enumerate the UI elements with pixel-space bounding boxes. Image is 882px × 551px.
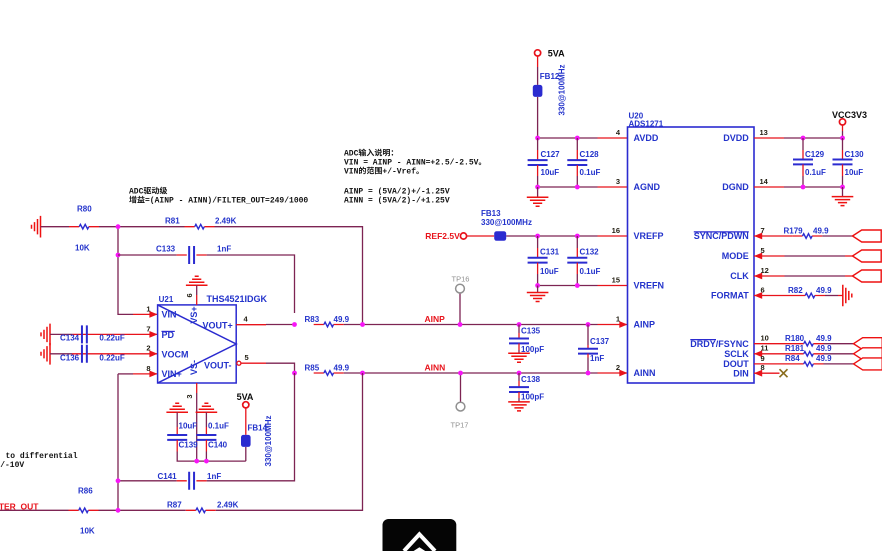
ground above C140 — [196, 403, 218, 412]
connector tag DRDY/FSYNC — [854, 338, 882, 350]
wire VREFN rail — [538, 285, 598, 287]
svg-text:VOUT-: VOUT- — [204, 360, 232, 370]
svg-text:C135: C135 — [521, 327, 541, 336]
svg-text:3: 3 — [616, 177, 620, 186]
ground below C131 — [537, 286, 539, 293]
svg-text:ADC: ADC — [129, 188, 144, 197]
svg-text:C133: C133 — [156, 245, 176, 254]
svg-text:VS-: VS- — [189, 360, 199, 375]
svg-text:R85: R85 — [305, 364, 320, 373]
svg-text:9: 9 — [761, 354, 765, 363]
svg-text:MODE: MODE — [722, 251, 749, 261]
svg-text:7: 7 — [761, 226, 765, 235]
svg-text:10uF: 10uF — [845, 168, 864, 177]
power port 5VA (top) — [535, 50, 541, 56]
capacitor C141 — [118, 373, 295, 481]
svg-text:10uF: 10uF — [179, 421, 198, 430]
svg-text:VCC3V3: VCC3V3 — [832, 110, 867, 120]
svg-text:11: 11 — [761, 344, 769, 353]
svg-text:49.9: 49.9 — [816, 354, 832, 363]
wire R80 to R81 to corner down to AINP node — [99, 227, 363, 325]
ground below C130 — [842, 187, 844, 197]
svg-text:1nF: 1nF — [207, 472, 221, 481]
svg-text:+/-Vref: +/-Vref — [382, 168, 416, 177]
pin 6 FORMAT row — [754, 292, 762, 299]
svg-text:5VA: 5VA — [237, 392, 254, 402]
svg-text:AINP: AINP — [634, 320, 656, 330]
svg-text:49.9: 49.9 — [334, 315, 350, 324]
resistor R86 — [69, 508, 99, 513]
svg-text:+/-10V: +/-10V — [0, 461, 24, 470]
svg-text:13: 13 — [760, 128, 768, 137]
svg-text:0.1uF: 0.1uF — [580, 267, 601, 276]
junction VOUT+ node — [292, 322, 297, 327]
ground below C135 — [508, 353, 530, 362]
pin 2 AINN arrow into IC — [598, 372, 628, 374]
svg-text:R80: R80 — [77, 205, 92, 214]
ground (VOCM pin 2) — [41, 343, 50, 365]
ground below C127 — [537, 187, 539, 197]
wire VOUT- pin 5 — [241, 362, 266, 364]
svg-text:R179: R179 — [784, 226, 804, 235]
pin 5 inversion bubble — [237, 361, 241, 365]
svg-text:330@100MHz: 330@100MHz — [558, 65, 567, 116]
resistor R82 — [795, 293, 825, 298]
svg-text:C141: C141 — [158, 472, 178, 481]
svg-text:C138: C138 — [521, 375, 541, 384]
wire pin 8 from feedback node — [118, 373, 133, 375]
wire AVDD rail — [538, 137, 598, 139]
junction VREFP/C132 — [575, 234, 580, 239]
svg-text:CLK: CLK — [730, 271, 749, 281]
svg-text:AINP = (5VA/2)+/-1.25V: AINP = (5VA/2)+/-1.25V — [344, 188, 450, 197]
capacitor C129 — [802, 138, 804, 150]
op-amp U21 THS4521IDGK — [158, 294, 268, 383]
capacitor C128 — [576, 138, 578, 150]
svg-text:2: 2 — [146, 344, 150, 353]
svg-text:7: 7 — [146, 324, 150, 333]
connector tag CLK — [853, 270, 882, 282]
ferrite bead FB14 — [245, 408, 247, 435]
svg-text:49.9: 49.9 — [816, 344, 832, 353]
svg-text:C128: C128 — [580, 150, 600, 159]
junction AVDD/C128 — [575, 136, 580, 141]
junction VREFN/C131 — [535, 283, 540, 288]
pin 10 DRDY/FSYNC row — [754, 343, 794, 345]
connector tag MODE — [853, 250, 882, 262]
svg-text:C131: C131 — [540, 248, 560, 257]
ferrite bead FB12 — [537, 56, 539, 67]
svg-text:DIN: DIN — [733, 368, 749, 378]
svg-text:49.9: 49.9 — [816, 334, 832, 343]
connector tag SCLK — [854, 348, 882, 360]
pin 7 SYNC/PDWN row — [754, 233, 762, 240]
svg-text:8: 8 — [761, 363, 765, 372]
svg-text:REF2.5V: REF2.5V — [425, 231, 460, 241]
junction pin3 rail — [194, 459, 199, 464]
no-connect X on DIN — [780, 369, 788, 377]
junction R87 feedback at AINN — [360, 371, 365, 376]
junction AVDD/C127 — [535, 136, 540, 141]
svg-text:R81: R81 — [165, 217, 180, 226]
svg-text:R82: R82 — [788, 286, 803, 295]
svg-text:R180: R180 — [785, 334, 805, 343]
svg-text:VIN: VIN — [344, 168, 359, 177]
svg-text:C132: C132 — [580, 248, 600, 257]
ground (input, left of R80) — [32, 216, 41, 238]
svg-text:VOUT+: VOUT+ — [203, 320, 233, 330]
junction DGND/C129 — [801, 185, 806, 190]
svg-text:ADS1271: ADS1271 — [629, 119, 664, 128]
junction DGND/C130 — [840, 185, 845, 190]
wire pin 6 — [196, 285, 198, 295]
svg-text:SYNC/PDWN: SYNC/PDWN — [694, 231, 749, 241]
svg-text:1: 1 — [146, 304, 150, 313]
svg-text:10uF: 10uF — [540, 267, 559, 276]
svg-text:FB13: FB13 — [481, 209, 501, 218]
wire AINP run — [344, 324, 598, 326]
wire pin 3 to bypass rail — [196, 383, 198, 393]
svg-text:100pF: 100pF — [521, 393, 544, 402]
svg-text:330@100MHz: 330@100MHz — [481, 218, 532, 227]
svg-text:R86: R86 — [78, 486, 93, 495]
svg-text:AINN: AINN — [425, 363, 446, 373]
svg-text:=(AINP - AINN)/FILTER_OUT=249/: =(AINP - AINN)/FILTER_OUT=249/1000 — [145, 197, 308, 206]
capacitor C137 — [586, 322, 591, 327]
power port 5VA (FB14) — [243, 402, 249, 408]
op-amp U1 pin 1 lead — [133, 313, 158, 315]
ground above C139 — [166, 403, 188, 412]
junction R80/R81 — [116, 224, 121, 229]
svg-text:4: 4 — [616, 128, 621, 137]
pin 9 DOUT row — [754, 363, 794, 365]
capacitor C130 — [842, 138, 844, 150]
pin 11 SCLK row — [754, 350, 762, 357]
svg-text:3: 3 — [185, 395, 194, 399]
svg-text:VREFP: VREFP — [634, 231, 664, 241]
svg-text:VIN = AINP - AINN=+2.5/-2.5V: VIN = AINP - AINN=+2.5/-2.5V — [344, 159, 479, 168]
svg-text:C130: C130 — [845, 150, 865, 159]
svg-text:49.9: 49.9 — [334, 364, 350, 373]
wire VREFP rail — [538, 235, 598, 237]
resistor R179 — [792, 234, 822, 239]
svg-text:VREFN: VREFN — [634, 281, 665, 291]
svg-text:to differential: to differential — [6, 452, 78, 461]
IC U20 ADS1271 — [628, 112, 755, 384]
svg-text:12: 12 — [761, 266, 769, 275]
svg-text:FORMAT: FORMAT — [711, 291, 749, 301]
svg-text:0.1uF: 0.1uF — [805, 168, 826, 177]
svg-text:C139: C139 — [179, 441, 199, 450]
wire DGND rail — [754, 186, 784, 188]
svg-text:VIN-: VIN- — [162, 310, 180, 320]
svg-text:8: 8 — [146, 364, 150, 373]
svg-text:6: 6 — [761, 285, 765, 294]
resistor R81 — [185, 224, 215, 229]
svg-text:2.49K: 2.49K — [215, 217, 237, 226]
pin 1 AINP arrow into IC — [598, 324, 628, 326]
capacitor C127 — [537, 138, 539, 150]
connector tag DOUT — [854, 358, 882, 370]
wire pin 2 — [50, 353, 72, 355]
svg-text:C129: C129 — [805, 150, 825, 159]
svg-text:10K: 10K — [80, 527, 95, 536]
ground (PD pin 7) — [41, 324, 50, 346]
wire feedback vertical left — [117, 374, 119, 510]
junction C141 left — [116, 478, 121, 483]
svg-text:R84: R84 — [785, 354, 800, 363]
wire DVDD rail — [754, 137, 784, 139]
svg-text:SCLK: SCLK — [724, 349, 749, 359]
svg-text:0.1uF: 0.1uF — [580, 168, 601, 177]
svg-text:R87: R87 — [167, 500, 182, 509]
wire C133 branch — [118, 255, 295, 313]
svg-text:C140: C140 — [208, 441, 228, 450]
svg-text:1: 1 — [616, 314, 620, 323]
svg-text:330@100MHz: 330@100MHz — [264, 416, 273, 467]
svg-text:1nF: 1nF — [217, 245, 231, 254]
pin 5 MODE row — [754, 253, 762, 260]
capacitor C131 — [537, 236, 539, 248]
junction C140 rail — [204, 459, 209, 464]
pin 8 DIN row — [754, 370, 762, 377]
capacitor C138 — [517, 371, 522, 376]
ground at FORMAT (rotated right) — [843, 285, 852, 307]
junction VREFN/C132 — [575, 283, 580, 288]
resistor R87 — [186, 508, 216, 513]
test point TP17 — [460, 373, 462, 402]
svg-text:10uF: 10uF — [541, 168, 560, 177]
svg-text:0.1uF: 0.1uF — [208, 421, 229, 430]
junction R81 feedback at AINP — [360, 322, 365, 327]
capacitor C133 — [177, 254, 207, 256]
svg-text:16: 16 — [612, 226, 620, 235]
junction DVDD/C129 — [801, 136, 806, 141]
junction VREFP/C131 — [535, 234, 540, 239]
wire pin 7 — [50, 333, 72, 335]
svg-text:C127: C127 — [541, 150, 561, 159]
svg-text:R83: R83 — [305, 315, 320, 324]
svg-text:AINN: AINN — [634, 368, 656, 378]
capacitor C134 — [82, 325, 87, 343]
note: ADC input description (Chinese) — [344, 149, 481, 206]
svg-text:6: 6 — [185, 293, 194, 297]
svg-text:DGND: DGND — [722, 182, 749, 192]
svg-text:49.9: 49.9 — [813, 226, 829, 235]
resistor R85 — [314, 371, 344, 376]
junction VOUT- node — [292, 371, 297, 376]
svg-text:4: 4 — [244, 315, 249, 324]
ground below C138 — [508, 402, 530, 411]
svg-text:14: 14 — [760, 177, 769, 186]
svg-text:VIN+: VIN+ — [162, 369, 182, 379]
svg-text:1nF: 1nF — [590, 354, 604, 363]
svg-text:2: 2 — [616, 363, 620, 372]
svg-text:TP16: TP16 — [452, 275, 470, 284]
resistor R83 — [314, 322, 344, 327]
svg-text:10: 10 — [761, 334, 769, 343]
svg-text:15: 15 — [612, 275, 620, 284]
junction AGND/C127 — [535, 185, 540, 190]
svg-text:2.49K: 2.49K — [217, 500, 239, 509]
capacitor C135 — [517, 322, 522, 327]
pin 12 CLK row — [754, 273, 762, 280]
note: ADC driver stage gain (Chinese) — [129, 187, 308, 206]
back-to-top button overlay — [383, 519, 457, 551]
wire AINN run — [344, 372, 598, 374]
svg-text:VOCM: VOCM — [162, 350, 189, 360]
svg-text:THS4521IDGK: THS4521IDGK — [207, 294, 268, 304]
svg-text:0.22uF: 0.22uF — [99, 354, 124, 363]
capacitor C136 — [82, 345, 87, 363]
junction DVDD/C130 — [840, 136, 845, 141]
capacitor C139 — [176, 412, 178, 427]
resistor R181 — [794, 352, 824, 357]
test point TP16 — [459, 293, 461, 325]
wire AGND rail — [538, 186, 598, 188]
svg-text:DRDY/FSYNC: DRDY/FSYNC — [690, 339, 749, 349]
resistor R84 — [794, 362, 824, 367]
svg-text:0.22uF: 0.22uF — [99, 334, 124, 343]
svg-text:49.9: 49.9 — [816, 286, 832, 295]
svg-text:DVDD: DVDD — [723, 133, 749, 143]
capacitor C140 — [205, 412, 207, 427]
junction C133 tap — [116, 253, 121, 258]
svg-text:U21: U21 — [159, 295, 174, 304]
svg-text:R181: R181 — [785, 344, 805, 353]
svg-text:5VA: 5VA — [548, 48, 565, 58]
wire VOUT+ pin 4 — [236, 324, 266, 326]
svg-text:5: 5 — [761, 246, 765, 255]
note: single-ended to differential (cut off at left edge) — [0, 452, 78, 470]
connector tag SYNC/PDWN — [853, 230, 882, 242]
wire FILTER_OUT run — [0, 373, 363, 510]
svg-text:10K: 10K — [75, 244, 90, 253]
wire R80 input net — [41, 226, 70, 228]
capacitor C132 — [576, 236, 578, 248]
svg-text:AVDD: AVDD — [634, 133, 659, 143]
svg-text:5: 5 — [245, 353, 249, 362]
svg-text:ADC: ADC — [344, 150, 359, 159]
junction R86/R87 — [116, 508, 121, 513]
resistor R80 — [69, 224, 99, 229]
svg-text:VS+: VS+ — [189, 306, 199, 323]
junction AGND/C128 — [575, 185, 580, 190]
svg-text:C137: C137 — [590, 337, 610, 346]
ground (VS+ pin 6, above op-amp) — [186, 276, 208, 285]
wire VIN- node vertical — [118, 227, 133, 315]
resistor R180 — [794, 341, 824, 346]
power port REF2.5V circle — [460, 233, 466, 239]
svg-text:TP17: TP17 — [451, 421, 469, 430]
svg-text:AGND: AGND — [634, 182, 661, 192]
svg-text:C136: C136 — [60, 354, 80, 363]
svg-text:C134: C134 — [60, 334, 80, 343]
ferrite bead FB13 — [467, 235, 494, 237]
svg-text:AINN = (5VA/2)-/+1.25V: AINN = (5VA/2)-/+1.25V — [344, 197, 450, 206]
svg-text:AINP: AINP — [425, 314, 446, 324]
